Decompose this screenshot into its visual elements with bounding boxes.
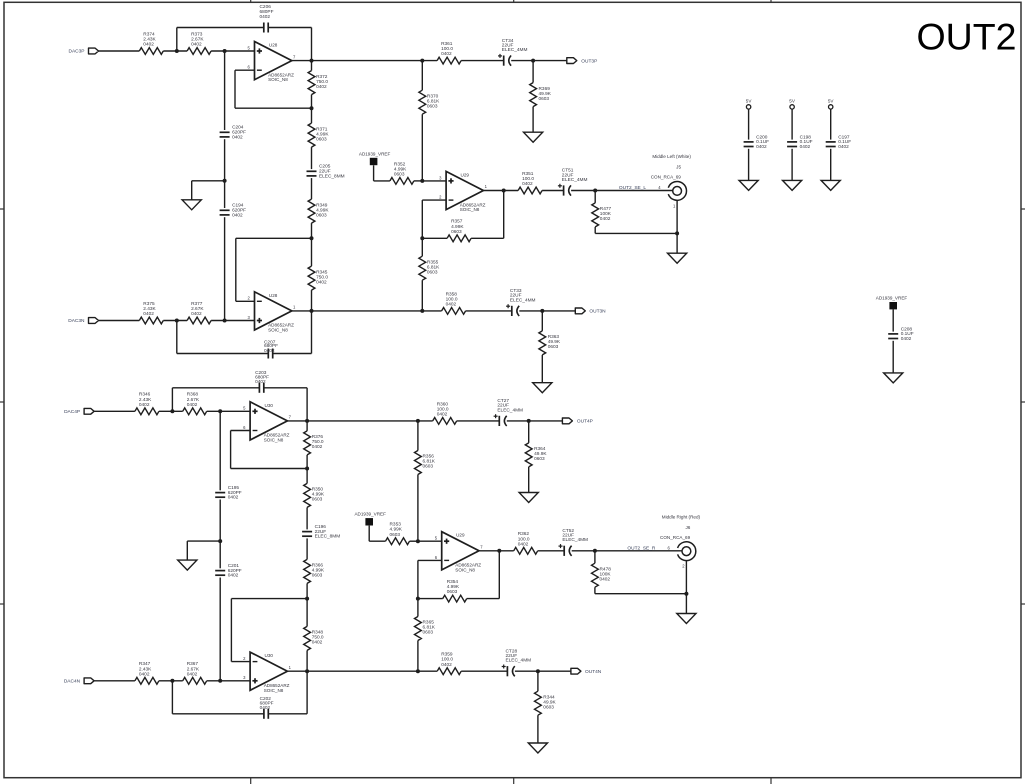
svg-text:0603: 0603 — [427, 269, 438, 275]
wire — [224, 217, 226, 320]
wire — [503, 191, 505, 239]
junction — [310, 59, 314, 63]
ground — [821, 180, 840, 190]
wire — [306, 388, 308, 421]
svg-text:0402: 0402 — [228, 495, 239, 501]
svg-text:SOIC_N8: SOIC_N8 — [268, 77, 288, 82]
wire — [418, 540, 442, 542]
svg-text:100.0: 100.0 — [441, 46, 453, 52]
svg-text:R368: R368 — [187, 392, 199, 398]
svg-text:100.0: 100.0 — [522, 176, 534, 182]
svg-text:0603: 0603 — [543, 704, 554, 710]
ground — [519, 493, 538, 503]
wire — [417, 421, 419, 451]
junction — [218, 679, 222, 683]
resistor R372 — [308, 71, 315, 95]
capacitor C206 — [263, 23, 265, 33]
svg-text:AD1939_VREF: AD1939_VREF — [359, 151, 391, 156]
resistor R349 — [308, 199, 315, 223]
svg-text:R367: R367 — [187, 661, 199, 667]
wire — [417, 475, 419, 542]
wire — [414, 180, 422, 182]
wire — [466, 310, 512, 312]
wire — [417, 560, 419, 598]
net tag DAC3P — [89, 48, 99, 54]
svg-text:R361: R361 — [441, 41, 453, 47]
border tick — [513, 0, 515, 2]
svg-text:2.43K: 2.43K — [143, 306, 156, 312]
wire — [421, 238, 423, 256]
svg-text:0402: 0402 — [316, 84, 327, 90]
wire — [537, 671, 539, 691]
resistor R365 — [415, 617, 422, 641]
wire — [595, 232, 677, 234]
svg-text:0402: 0402 — [191, 42, 202, 48]
wire — [306, 671, 308, 714]
svg-text:0603: 0603 — [312, 497, 323, 503]
svg-text:0603: 0603 — [312, 573, 323, 579]
svg-text:ELEC_4MM: ELEC_4MM — [497, 407, 523, 413]
svg-text:0603: 0603 — [451, 229, 462, 235]
capacitor C195 — [215, 492, 225, 494]
junction — [305, 467, 309, 471]
wire — [532, 107, 534, 133]
op-amp U29 — [442, 532, 479, 570]
net tag DAC3N — [89, 318, 99, 324]
resistor R357 — [447, 235, 471, 242]
capacitor C200 — [744, 141, 754, 143]
svg-text:0402: 0402 — [255, 379, 266, 385]
wire — [467, 598, 500, 600]
junction — [593, 549, 597, 553]
svg-text:0402: 0402 — [446, 302, 457, 308]
wire — [171, 388, 173, 412]
junction — [420, 236, 424, 240]
wire — [176, 321, 178, 354]
wire — [177, 353, 268, 355]
resistor R355 — [419, 256, 426, 280]
resistor R370 — [419, 90, 426, 114]
junction — [175, 49, 179, 53]
svg-text:0402: 0402 — [312, 640, 323, 646]
svg-text:0402: 0402 — [518, 541, 529, 547]
svg-text:R375: R375 — [143, 301, 155, 307]
ground — [524, 132, 543, 142]
wire — [461, 60, 504, 62]
wire — [273, 353, 311, 355]
resistor R345 — [308, 266, 315, 290]
wire — [457, 420, 500, 422]
capacitor CT28 — [506, 666, 508, 676]
wire — [231, 598, 307, 600]
wire — [176, 28, 178, 52]
wire — [99, 50, 140, 52]
net tag OUT4N — [571, 668, 581, 674]
resistor R364 — [525, 443, 532, 467]
resistor R353 — [386, 538, 410, 545]
svg-text:0603: 0603 — [427, 103, 438, 109]
wire — [292, 310, 442, 312]
svg-text:0402: 0402 — [260, 14, 271, 20]
junction — [540, 309, 544, 313]
svg-text:OUT3N: OUT3N — [589, 309, 606, 315]
wire — [791, 149, 793, 181]
wire — [187, 540, 220, 542]
svg-text:0402: 0402 — [312, 444, 323, 450]
resistor R362 — [514, 547, 538, 554]
svg-text:0402: 0402 — [441, 51, 452, 57]
svg-text:R353: R353 — [390, 522, 402, 528]
wire — [163, 50, 187, 52]
wire — [421, 114, 423, 181]
op-amp U28 (B) — [255, 292, 292, 330]
border tick — [0, 208, 4, 210]
junction — [310, 309, 314, 313]
capacitor C202 — [263, 709, 265, 719]
resistor R356 — [415, 451, 422, 475]
svg-text:2.67K: 2.67K — [187, 666, 200, 672]
svg-text:0402: 0402 — [232, 212, 243, 218]
svg-text:R373: R373 — [191, 31, 203, 37]
junction — [502, 189, 506, 193]
svg-text:0603: 0603 — [548, 344, 559, 350]
resistor R477 — [592, 203, 599, 227]
svg-text:0402: 0402 — [139, 671, 150, 677]
svg-text:R346: R346 — [139, 392, 151, 398]
wire — [498, 551, 500, 599]
svg-text:0402: 0402 — [437, 412, 448, 418]
wire — [287, 420, 432, 422]
wire — [892, 309, 894, 331]
svg-text:J5: J5 — [676, 165, 681, 170]
wire — [830, 149, 832, 181]
wire — [207, 410, 250, 412]
svg-text:5V: 5V — [789, 99, 796, 104]
wire — [231, 468, 308, 470]
junction — [420, 59, 424, 63]
wire — [306, 421, 308, 431]
capacitor CT51 — [563, 185, 565, 195]
svg-text:AD1939_VREF: AD1939_VREF — [876, 296, 908, 301]
wire — [417, 641, 419, 672]
resistor R375 — [139, 317, 163, 324]
wire — [311, 61, 313, 71]
resistor R351 — [518, 187, 542, 194]
svg-text:0402: 0402 — [600, 576, 611, 582]
junction — [531, 59, 535, 63]
wire — [418, 598, 443, 600]
border tick — [0, 603, 4, 605]
junction — [416, 597, 420, 601]
wire — [410, 540, 418, 542]
wire — [892, 341, 894, 373]
resistor R377 — [187, 317, 211, 324]
svg-text:R360: R360 — [437, 401, 449, 407]
capacitor C196 — [302, 531, 312, 533]
svg-text:0402: 0402 — [139, 402, 150, 408]
svg-text:SOIC_N8: SOIC_N8 — [460, 207, 480, 212]
wire — [830, 109, 832, 140]
junction — [305, 669, 309, 673]
svg-text:0402: 0402 — [187, 402, 198, 408]
wire — [231, 661, 250, 663]
svg-text:2.43K: 2.43K — [139, 397, 152, 403]
wire — [306, 538, 308, 559]
resistor R374 — [139, 48, 163, 55]
svg-text:0402: 0402 — [260, 705, 271, 711]
wire — [171, 681, 173, 714]
capacitor CT33 — [511, 306, 513, 316]
wire — [541, 311, 543, 331]
svg-text:0402: 0402 — [316, 279, 327, 285]
border tick — [0, 401, 4, 403]
wire — [511, 60, 567, 62]
svg-text:SOIC_N8: SOIC_N8 — [268, 328, 288, 333]
wire — [422, 237, 447, 239]
junction — [420, 179, 424, 183]
junction — [218, 539, 222, 543]
capacitor C203 — [258, 383, 260, 393]
wire — [306, 650, 308, 671]
wire — [211, 320, 254, 322]
junction — [527, 419, 531, 423]
svg-text:0402: 0402 — [228, 573, 239, 579]
wire — [594, 227, 596, 234]
svg-text:R351: R351 — [522, 171, 534, 177]
junction — [497, 549, 501, 553]
resistor R358 — [442, 308, 466, 315]
junction — [223, 319, 227, 323]
svg-text:0603: 0603 — [390, 532, 401, 538]
wire — [306, 583, 308, 626]
resistor R346 — [135, 408, 159, 415]
net tag OUT3P — [567, 58, 577, 64]
wire — [159, 680, 183, 682]
wire — [422, 199, 446, 201]
svg-text:CON_RCA_69: CON_RCA_69 — [660, 535, 691, 540]
wire — [421, 200, 423, 238]
svg-text:0402: 0402 — [143, 42, 154, 48]
wire — [163, 320, 187, 322]
resistor R368 — [183, 408, 207, 415]
wire — [159, 410, 183, 412]
ground — [783, 180, 802, 190]
svg-text:SOIC_N8: SOIC_N8 — [264, 438, 284, 443]
svg-text:ELEC_4MM: ELEC_4MM — [562, 177, 588, 183]
wire — [369, 540, 385, 542]
svg-text:U28: U28 — [269, 293, 278, 298]
wire — [417, 599, 419, 617]
wire — [172, 713, 263, 715]
svg-text:ELEC_4MM: ELEC_4MM — [562, 537, 588, 543]
junction — [223, 49, 227, 53]
svg-text:0402: 0402 — [600, 216, 611, 222]
wire — [542, 190, 564, 192]
border tick — [770, 0, 772, 2]
wire — [594, 587, 596, 594]
wire — [94, 410, 135, 412]
svg-text:OUT2_SE_R: OUT2_SE_R — [627, 545, 656, 551]
svg-text:5V: 5V — [746, 99, 753, 104]
ground — [677, 614, 696, 624]
junction — [305, 419, 309, 423]
junction — [170, 409, 174, 413]
svg-text:ELEC_4MM: ELEC_4MM — [506, 658, 532, 664]
svg-text:DAC3N: DAC3N — [68, 318, 85, 324]
svg-text:U29: U29 — [456, 533, 465, 538]
wire — [519, 310, 575, 312]
wire — [571, 190, 673, 192]
svg-text:R352: R352 — [394, 161, 406, 167]
resistor R359 — [437, 668, 461, 675]
wire — [676, 200, 678, 253]
resistor R360 — [433, 418, 457, 425]
junction — [223, 179, 227, 183]
svg-text:0603: 0603 — [423, 630, 434, 636]
wire — [230, 431, 232, 469]
wire — [177, 27, 264, 29]
svg-text:U29: U29 — [461, 172, 470, 177]
resistor R348 — [304, 626, 311, 650]
wire — [230, 599, 232, 662]
svg-text:0402: 0402 — [522, 181, 533, 187]
wire — [532, 61, 534, 83]
junction — [416, 539, 420, 543]
resistor R373 — [187, 48, 211, 55]
op-amp U30 (B) — [250, 652, 287, 690]
capacitor CT52 — [563, 546, 565, 556]
svg-text:Middle Left (White): Middle Left (White) — [652, 154, 691, 159]
wire — [219, 411, 221, 490]
wire — [368, 526, 370, 542]
wire — [311, 28, 313, 61]
svg-text:OUT4P: OUT4P — [577, 419, 593, 425]
wire — [172, 387, 259, 389]
svg-text:0402: 0402 — [191, 311, 202, 317]
svg-text:AD1939_VREF: AD1939_VREF — [354, 512, 386, 517]
wire — [269, 713, 307, 715]
svg-text:0402: 0402 — [441, 662, 452, 668]
resistor R350 — [304, 483, 311, 507]
svg-text:2.43K: 2.43K — [139, 666, 152, 672]
capacitor C204 — [220, 131, 230, 133]
wire — [479, 550, 514, 552]
wire — [94, 680, 135, 682]
svg-text:100.0: 100.0 — [437, 406, 449, 412]
wire — [537, 715, 539, 743]
capacitor C205 — [307, 170, 317, 172]
wire — [374, 180, 390, 182]
svg-text:100.0: 100.0 — [518, 536, 530, 542]
svg-text:DAC3P: DAC3P — [69, 49, 85, 55]
svg-text:DAC4N: DAC4N — [64, 679, 81, 685]
junction — [593, 189, 597, 193]
svg-text:4.99K: 4.99K — [390, 527, 403, 533]
wire — [507, 420, 563, 422]
svg-text:0402: 0402 — [187, 671, 198, 677]
svg-text:OUT3P: OUT3P — [581, 58, 597, 64]
svg-text:0603: 0603 — [316, 212, 327, 218]
svg-text:100.0: 100.0 — [441, 657, 453, 663]
wire — [572, 550, 682, 552]
resistor R361 — [437, 57, 461, 64]
wire — [292, 60, 437, 62]
junction — [170, 679, 174, 683]
ground — [178, 560, 197, 570]
wire — [748, 149, 750, 181]
wire — [311, 290, 313, 311]
wire — [311, 311, 313, 354]
svg-text:R347: R347 — [139, 661, 151, 667]
wire — [311, 178, 313, 199]
svg-text:R362: R362 — [518, 531, 530, 537]
svg-text:0603: 0603 — [447, 589, 458, 595]
wire — [219, 578, 221, 681]
svg-text:OUT2_SE_L: OUT2_SE_L — [619, 185, 647, 191]
wire — [219, 500, 221, 569]
svg-text:R377: R377 — [191, 301, 203, 307]
wire — [422, 180, 446, 182]
wire — [538, 550, 565, 552]
net tag OUT4P — [562, 418, 572, 424]
wire — [541, 355, 543, 383]
wire — [287, 670, 437, 672]
capacitor C194 — [220, 209, 230, 211]
svg-text:100.0: 100.0 — [446, 296, 458, 302]
svg-text:R358: R358 — [446, 291, 458, 297]
wire — [791, 109, 793, 140]
svg-text:R374: R374 — [143, 31, 155, 37]
junction — [416, 419, 420, 423]
wire — [234, 70, 236, 108]
resistor R354 — [443, 595, 467, 602]
wire — [471, 237, 504, 239]
wire — [236, 237, 312, 239]
capacitor CT27 — [498, 416, 500, 426]
wire — [235, 69, 255, 71]
svg-text:0402: 0402 — [143, 311, 154, 317]
resistor R352 — [390, 178, 414, 185]
svg-text:ELEC_8MM: ELEC_8MM — [315, 534, 341, 540]
wire — [421, 280, 423, 311]
resistor R344 — [535, 691, 542, 715]
resistor R478 — [592, 563, 599, 587]
svg-text:4.99K: 4.99K — [451, 224, 464, 230]
ground — [182, 200, 201, 210]
resistor R363 — [539, 331, 546, 355]
wire — [224, 51, 226, 130]
svg-text:OUT2: OUT2 — [916, 16, 1016, 58]
wire — [269, 27, 312, 29]
wire — [311, 147, 313, 169]
svg-text:U28: U28 — [269, 43, 278, 48]
wire — [748, 109, 750, 140]
wire — [235, 238, 237, 301]
wire — [483, 190, 518, 192]
junction — [416, 669, 420, 673]
ground — [528, 743, 547, 753]
wire — [594, 551, 596, 563]
svg-text:OUT4N: OUT4N — [585, 669, 602, 675]
wire — [373, 165, 375, 181]
svg-text:ELEC_4MM: ELEC_4MM — [510, 297, 536, 303]
wire — [528, 421, 530, 443]
wire — [595, 593, 687, 595]
svg-text:4.99K: 4.99K — [394, 166, 407, 172]
op-amp U29 — [446, 171, 483, 209]
wire — [192, 180, 225, 182]
wire — [461, 670, 507, 672]
